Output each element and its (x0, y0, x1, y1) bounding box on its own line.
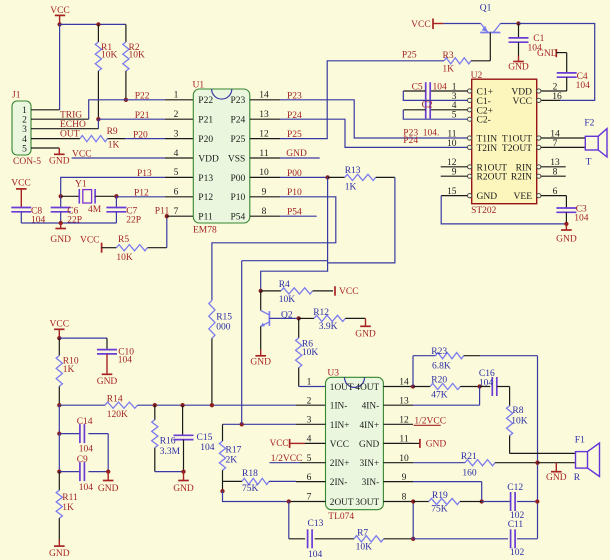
wire to U3 pin7 (2OUT) (223, 491, 289, 501)
svg-text:P00: P00 (287, 169, 302, 179)
wire P24 net to U2 T2IN (280, 119, 468, 147)
wire Q2 base node (269, 317, 298, 319)
svg-text:1K: 1K (345, 183, 357, 193)
wire R21 to speaker F1 bottom (538, 462, 576, 464)
svg-text:104: 104 (200, 443, 215, 453)
svg-text:4: 4 (174, 149, 179, 159)
junction dot Y1 right (114, 194, 118, 198)
wire R8 to speaker F1 top (510, 452, 576, 454)
svg-text:GND: GND (359, 440, 379, 450)
svg-text:1OUT: 1OUT (330, 383, 354, 393)
svg-text:2: 2 (22, 116, 27, 126)
connector J1 CON-5 (12, 101, 31, 155)
svg-text:C13: C13 (308, 519, 324, 529)
svg-text:VCC: VCC (411, 20, 431, 30)
svg-text:104: 104 (479, 378, 494, 388)
ground GND under C15 (183, 472, 185, 481)
svg-text:10K: 10K (279, 295, 296, 305)
resistor R11 1K (58, 472, 60, 491)
svg-text:P10: P10 (231, 193, 246, 203)
svg-text:F2: F2 (584, 118, 594, 128)
svg-text:P25: P25 (231, 135, 246, 145)
junction dot R7 right (411, 537, 415, 541)
svg-text:10K: 10K (116, 253, 132, 263)
svg-text:22P: 22P (67, 215, 82, 225)
junction dot R21/right vertical (535, 461, 539, 465)
svg-text:C5: C5 (412, 83, 423, 93)
svg-text:C15: C15 (197, 433, 213, 443)
wire left rail down (58, 405, 60, 433)
svg-text:P12: P12 (198, 193, 213, 203)
svg-text:R11: R11 (62, 493, 78, 503)
svg-text:3.3M: 3.3M (160, 447, 181, 457)
capacitor C3 104 (556, 207, 576, 209)
wire R23 to right vertical (480, 355, 538, 357)
junction dot ground rail (59, 221, 63, 225)
junction dot R15 bottom (210, 403, 214, 407)
ground GND under C6 (60, 223, 62, 229)
svg-text:R9: R9 (107, 127, 118, 137)
svg-text:P24: P24 (403, 136, 418, 146)
junction dot Q2 base / R6 / R12 (297, 316, 301, 320)
svg-text:R8: R8 (512, 406, 523, 416)
svg-text:Q1: Q1 (480, 4, 492, 14)
wire R16 bottom to C15 bottom (155, 471, 184, 473)
wire U2 R1OUT stub (441, 166, 468, 168)
svg-text:R5: R5 (118, 235, 129, 245)
svg-text:1K: 1K (62, 503, 74, 513)
svg-text:1K: 1K (63, 365, 75, 375)
svg-text:75K: 75K (242, 484, 259, 494)
svg-text:R23: R23 (431, 347, 447, 357)
svg-text:GND: GND (49, 549, 70, 559)
resistor R7 10K (354, 536, 384, 542)
svg-text:GND: GND (97, 377, 118, 387)
capacitor C12 102 (482, 501, 511, 503)
wire VCC to Q1 emitter (433, 23, 443, 25)
svg-text:4IN+: 4IN+ (359, 421, 379, 431)
wire GND net from U1 VSS (280, 157, 320, 159)
svg-text:C11: C11 (508, 520, 524, 530)
svg-text:104: 104 (79, 483, 94, 493)
svg-text:P25: P25 (287, 130, 302, 140)
wire R7 to C11 (413, 538, 508, 540)
svg-text:GND: GND (556, 235, 577, 245)
junction dot pin9/R19/C12 (480, 499, 484, 503)
ground GND under C3 (565, 224, 567, 230)
wire J1 pin5 to GND (31, 147, 59, 149)
wire VCC to U3 pin4 (290, 442, 305, 444)
svg-text:TRIG: TRIG (60, 110, 82, 120)
svg-text:P24: P24 (287, 111, 302, 121)
capacitor C13 104 (307, 529, 309, 548)
svg-text:P22: P22 (198, 96, 213, 106)
svg-text:R2IN: R2IN (511, 173, 532, 183)
svg-text:1IN-: 1IN- (330, 402, 348, 412)
U1 right pin leads (250, 99, 280, 101)
svg-text:VCC: VCC (50, 6, 70, 16)
svg-text:104: 104 (574, 213, 589, 223)
svg-text:Y1: Y1 (75, 179, 87, 189)
junction dot VCC/R10/C10 (57, 336, 61, 340)
junction dot C15 top (180, 403, 184, 407)
svg-text:R20: R20 (431, 376, 447, 386)
svg-text:10K: 10K (302, 348, 319, 358)
junction dot C13 top (287, 499, 291, 503)
svg-text:CON-5: CON-5 (13, 157, 41, 167)
resistor R15 000 (209, 300, 215, 338)
wire R6 to U3 pin1 (299, 386, 326, 388)
svg-text:VEE: VEE (514, 192, 533, 202)
junction dot P00 (325, 175, 329, 179)
svg-text:14: 14 (259, 91, 269, 101)
svg-text:P25: P25 (402, 50, 417, 60)
svg-text:1IN+: 1IN+ (330, 421, 350, 431)
svg-text:1: 1 (307, 378, 312, 388)
wire P23 net to U2 T1IN (280, 100, 468, 138)
resistor R21 160 (413, 462, 465, 464)
ground GND at U3 pin11 (413, 442, 420, 444)
svg-text:10: 10 (259, 168, 269, 178)
svg-text:C12: C12 (507, 483, 523, 493)
svg-text:3.9K: 3.9K (319, 322, 338, 332)
svg-text:3: 3 (22, 125, 27, 135)
junction dot R16 top (153, 403, 157, 407)
wire J1 pin2 TRIG (31, 118, 89, 120)
wire U2 T2OUT to speaker F2 (541, 146, 585, 148)
capacitor C11 102 (510, 529, 512, 548)
svg-text:P23: P23 (287, 91, 302, 101)
wire U2 R2IN stub (541, 175, 566, 177)
capacitor C10 104 (59, 337, 107, 339)
resistor R9 1K (80, 136, 107, 142)
capacitor C2 loop pins4-5 (430, 109, 467, 111)
wire left rail down 2 (58, 434, 60, 472)
capacitor C7 22P (115, 196, 117, 207)
svg-text:ST202: ST202 (471, 206, 497, 216)
svg-text:T2IN: T2IN (477, 144, 498, 154)
svg-text:VCC: VCC (512, 97, 532, 107)
svg-text:R14: R14 (107, 394, 123, 404)
ground GND at Q2 emitter (260, 350, 262, 356)
resistor R13 1K (328, 176, 345, 178)
wire C13 to R7 (315, 538, 354, 540)
junction dot R1 top (96, 22, 100, 26)
svg-text:U3: U3 (327, 369, 339, 379)
wire U3 pin12 stub (414, 424, 441, 426)
wire J1 pin1 (31, 109, 60, 111)
wire vertical pin8 to R7 row (412, 502, 414, 539)
svg-text:P23: P23 (231, 96, 246, 106)
resistor R2 10K (125, 24, 127, 42)
svg-text:GND: GND (426, 440, 447, 450)
svg-text:13: 13 (259, 110, 269, 120)
svg-text:104: 104 (576, 81, 591, 91)
svg-text:2IN+: 2IN+ (330, 459, 350, 469)
svg-text:47K: 47K (431, 390, 448, 400)
wire R14 row to U3 pin2 (1IN-) (138, 404, 297, 406)
svg-text:4M: 4M (88, 205, 102, 215)
wire R13 right loop down (328, 177, 395, 263)
svg-text:3IN-: 3IN- (362, 478, 380, 488)
svg-text:1: 1 (174, 91, 179, 101)
svg-text:P24: P24 (231, 116, 246, 126)
resistor R16 3.3M (154, 405, 156, 420)
svg-text:VCC: VCC (330, 440, 349, 450)
svg-text:2IN-: 2IN- (330, 478, 348, 488)
svg-text:R21: R21 (461, 452, 477, 462)
svg-text:104: 104 (79, 444, 94, 454)
svg-text:U2: U2 (471, 71, 483, 81)
wire C13 branch (288, 502, 290, 539)
svg-text:VCC: VCC (339, 287, 359, 297)
svg-text:75K: 75K (431, 504, 448, 514)
svg-text:GND: GND (50, 235, 71, 245)
svg-text:2: 2 (307, 396, 312, 406)
wire C11 right to corner (517, 538, 537, 540)
wire P11 to U1 pin7 (167, 215, 194, 217)
wire U2 VDD pin2 to C4 (541, 90, 567, 92)
svg-text:C14: C14 (77, 417, 93, 427)
capacitor C15 104 (182, 405, 184, 435)
svg-text:VDD: VDD (198, 154, 219, 164)
wire TRIG up to P22 (89, 100, 126, 119)
svg-text:P00: P00 (231, 174, 246, 184)
wire horizontal at y261 (242, 260, 328, 262)
wire U3 pin14 node (411, 384, 415, 388)
svg-text:GND: GND (546, 473, 567, 483)
wire ground rail under C6/C7/C8 (21, 222, 116, 224)
resistor R19 75K (413, 501, 429, 503)
junction dot R1 bottom / P21 (96, 117, 100, 121)
wire P21 to U1 pin2 (98, 118, 165, 120)
svg-text:J1: J1 (12, 91, 21, 101)
svg-text:GND: GND (477, 192, 498, 202)
junction dot R20/C16/pin13 (477, 384, 481, 388)
wire P00 from U1 pin10 (280, 176, 328, 178)
svg-text:104: 104 (118, 356, 133, 366)
svg-text:TL074: TL074 (328, 512, 354, 522)
svg-text:GND: GND (49, 157, 70, 167)
svg-text:9: 9 (262, 188, 267, 198)
svg-text:VCC: VCC (270, 438, 289, 448)
junction dot VCC/J1 pin1 (57, 22, 61, 26)
resistor R10 1K (58, 338, 60, 355)
svg-text:10: 10 (447, 139, 457, 149)
junction dot pin3 row (240, 422, 244, 426)
svg-text:U1: U1 (193, 80, 205, 90)
resistor R18 75K (223, 480, 243, 482)
junction dot C9/C14 right ground (106, 469, 110, 473)
resistor R20 47K (413, 386, 430, 388)
svg-text:1K: 1K (442, 64, 454, 74)
wire J1 pin3 ECHO (31, 128, 98, 130)
capacitor C14 104 (59, 433, 80, 435)
ground GND under C10 (102, 373, 113, 375)
svg-text:3IN+: 3IN+ (359, 459, 379, 469)
wire P54 from U1 pin8 (280, 215, 317, 217)
svg-text:7: 7 (174, 207, 179, 217)
wire U2 T1OUT to speaker F2 (541, 137, 585, 139)
wire VCC down to J1 pin 1 (59, 24, 61, 109)
svg-text:Q2: Q2 (281, 311, 293, 321)
junction dot C3 ground (564, 222, 568, 226)
svg-text:GND: GND (250, 357, 271, 367)
svg-text:R12: R12 (313, 308, 329, 318)
svg-text:C9: C9 (77, 455, 88, 465)
svg-text:P54: P54 (287, 208, 302, 218)
svg-text:P13: P13 (198, 174, 213, 184)
svg-text:3: 3 (174, 129, 179, 139)
svg-text:3OUT: 3OUT (355, 498, 379, 508)
ground GND under C9 loop (107, 472, 109, 481)
svg-text:P54: P54 (231, 213, 246, 223)
svg-text:2K: 2K (226, 456, 238, 466)
svg-text:R2OUT: R2OUT (477, 173, 508, 183)
svg-text:R: R (574, 473, 581, 483)
capacitor C5 104 loop pins1-3 (430, 90, 467, 92)
svg-text:5: 5 (22, 144, 27, 154)
junction dot R10 bottom / R14 row (57, 403, 61, 407)
wire P10 from U1 pin9 down to R15 (212, 197, 336, 301)
wire R1 bottom to ECHO line (97, 119, 99, 129)
svg-text:11: 11 (259, 149, 268, 159)
wire P25 net up to R3 (280, 61, 444, 139)
junction dot pin8/R19 left (411, 499, 415, 503)
svg-text:5: 5 (174, 168, 179, 178)
resistor R6 10K (298, 318, 300, 338)
svg-text:4IN-: 4IN- (362, 402, 380, 412)
wire P00 down to Q2 collector (261, 177, 328, 291)
svg-text:16: 16 (552, 92, 562, 102)
svg-text:P22: P22 (135, 91, 150, 101)
capacitor C6 22P (60, 196, 62, 207)
wire P13 from U1 pin5 (165, 176, 193, 178)
svg-text:12: 12 (259, 129, 269, 139)
svg-text:120K: 120K (107, 410, 128, 420)
wire U2 R2OUT stub (441, 175, 468, 177)
resistor R23 6.8K (413, 355, 436, 357)
svg-text:F1: F1 (575, 436, 585, 446)
U3 right pin leads (383, 386, 413, 388)
junction dot C15 ground (181, 469, 185, 473)
svg-text:R19: R19 (432, 491, 448, 501)
wire 1/2VCC to U3 pin5 (269, 462, 300, 464)
svg-text:VCC: VCC (80, 235, 100, 245)
svg-text:VCC: VCC (50, 320, 70, 330)
svg-text:160: 160 (462, 468, 477, 478)
wire vertical P00 branch to pin3 row (241, 261, 243, 425)
svg-text:R18: R18 (242, 469, 258, 479)
IC U1 EM78 (193, 89, 250, 223)
IC U2 ST202 (472, 79, 537, 204)
capacitor C1 104 (518, 24, 520, 38)
resistor R8 10K (509, 387, 511, 406)
svg-text:R13: R13 (345, 166, 361, 176)
svg-text:R16: R16 (160, 436, 176, 446)
wire right vertical R23/R21/C12/C11 (537, 356, 539, 539)
resistor R3 1K (444, 58, 471, 64)
resistor R4 10K (261, 290, 281, 292)
crystal Y1 4M (61, 195, 80, 197)
junction dot Y1 left (59, 194, 63, 198)
resistor R1 10K (97, 24, 99, 42)
wire R23 branch up (412, 356, 414, 387)
ground GND at R12 (365, 318, 367, 326)
IC U3 TL074 (326, 377, 384, 509)
svg-text:P21: P21 (198, 116, 213, 126)
wire P22 to U1 pin1 (126, 99, 165, 101)
svg-text:R7: R7 (357, 529, 368, 539)
svg-text:104.: 104. (423, 128, 440, 138)
junction dot Q1 collector / C1 (516, 21, 520, 25)
capacitor C4 104 (556, 52, 566, 54)
svg-text:T: T (586, 158, 592, 168)
junction dot below R18 (220, 489, 224, 493)
wire U2 RIN stub (541, 166, 566, 168)
wire VCC to U1 pin4 VDD (72, 157, 165, 159)
junction dot R2 bottom / P22 (124, 98, 128, 102)
svg-text:2OUT: 2OUT (330, 498, 354, 508)
svg-text:GND: GND (508, 62, 529, 72)
ground GND under R11 (58, 540, 60, 547)
svg-text:P11: P11 (155, 206, 170, 216)
svg-text:R3: R3 (443, 51, 454, 61)
svg-text:VCC: VCC (11, 179, 31, 189)
ground GND at J1 pin5 (58, 148, 60, 154)
svg-text:P10: P10 (287, 188, 302, 198)
wire Q1 to U2 VCC pin16 (519, 24, 595, 101)
junction dot C14 left (57, 431, 61, 435)
svg-text:10K: 10K (101, 51, 118, 61)
svg-text:8: 8 (262, 207, 267, 217)
resistor R5 10K (102, 247, 117, 249)
svg-text:6: 6 (174, 188, 179, 198)
svg-text:10K: 10K (356, 543, 373, 553)
capacitor C9 104 (59, 471, 80, 473)
svg-text:R17: R17 (226, 446, 242, 456)
wire U2 GND pin15 loop to C3 ground (441, 195, 467, 197)
svg-text:R4: R4 (279, 280, 290, 290)
svg-text:104: 104 (31, 215, 46, 225)
svg-text:EM78: EM78 (193, 226, 217, 236)
svg-text:P11: P11 (198, 213, 213, 223)
svg-text:GND: GND (286, 149, 307, 159)
svg-text:R15: R15 (216, 312, 232, 322)
ground GND at F1 (555, 463, 557, 472)
wire U3 pin3 row (1IN+) (223, 423, 297, 425)
wire U2 VEE pin6 to C3 (541, 195, 567, 197)
ground GND under C1 (518, 56, 520, 62)
svg-text:VSS: VSS (228, 154, 245, 164)
junction dot C12 right (535, 499, 539, 503)
svg-text:4OUT: 4OUT (355, 383, 379, 393)
svg-text:22P: 22P (126, 215, 141, 225)
junction dot C9 left (57, 469, 61, 473)
wire VCC rail to R1/R2 tops (60, 23, 126, 25)
wire P12 to U1 pin6 (116, 196, 165, 198)
svg-text:10K: 10K (511, 416, 528, 426)
capacitor C16 104 (480, 386, 491, 388)
svg-text:OUT: OUT (60, 129, 80, 139)
wire P20 to U1 pin3 (125, 138, 165, 140)
capacitor C8 104 (11, 207, 31, 209)
svg-text:C1: C1 (533, 34, 544, 44)
resistor R17 2K (222, 424, 224, 441)
wire U3 pin13 up to R20 right (413, 404, 480, 406)
svg-text:2: 2 (174, 110, 179, 120)
svg-text:104: 104 (433, 83, 448, 93)
